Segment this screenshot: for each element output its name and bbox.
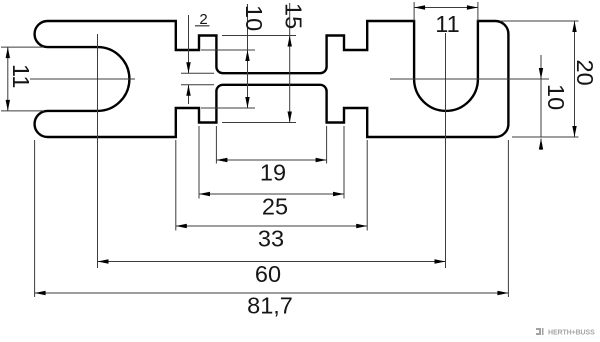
dimension line 10 middle	[247, 4, 249, 108]
ext line right edge (81,7)	[507, 140, 509, 297]
dimension line 2 web lower stem	[188, 85, 190, 104]
dimension line 10 right	[540, 55, 542, 137]
arrows 11 left	[6, 47, 10, 58]
svg-text:HERTH+BUSS: HERTH+BUSS	[548, 330, 595, 337]
dimension line 11 top	[414, 7, 478, 9]
ext line cutout left (19)	[215, 126, 217, 164]
arrows 19	[216, 158, 227, 162]
arrows 10 right	[539, 68, 543, 79]
herth+buss logo mark	[536, 328, 544, 335]
svg-text:33: 33	[258, 226, 284, 252]
dimension line 19	[216, 159, 326, 161]
ext line notch outer right (33)	[366, 140, 368, 231]
ext line notch outer left (33)	[175, 140, 177, 231]
svg-text:60: 60	[255, 261, 281, 287]
svg-text:10: 10	[543, 84, 569, 110]
ext line tab left (25)	[198, 126, 200, 199]
arrows 2 web	[186, 62, 190, 73]
dimension line 81,7	[35, 292, 509, 294]
svg-text:20: 20	[572, 60, 598, 86]
dimension line 60	[98, 261, 446, 263]
arrows 33	[176, 224, 187, 228]
dimension line 11 left	[7, 47, 9, 111]
ext line cutout right (19)	[326, 126, 328, 164]
svg-text:11: 11	[435, 11, 459, 37]
arrows 20 right	[572, 21, 576, 32]
svg-text:81,7: 81,7	[247, 293, 293, 319]
arrows 60	[98, 259, 109, 263]
dimension line 15 middle	[289, 3, 291, 123]
ext line slot-right right (11)	[477, 2, 479, 21]
centerline slot-right horizontal	[390, 78, 549, 80]
arrows 15 middle	[288, 36, 292, 47]
dimension line 25	[199, 193, 344, 195]
dimension line 2 web upper stem	[188, 15, 190, 73]
ext line slot-left bottom (11)	[1, 110, 44, 112]
arrows 10 middle	[245, 50, 249, 61]
ext line tab bottom (15)	[222, 122, 296, 124]
ext line left edge (81,7)	[34, 140, 36, 297]
centerline slot-right vertical	[445, 33, 447, 268]
ext line notch floor top (10)	[201, 49, 255, 51]
centerline slot-left vertical	[97, 34, 99, 268]
centerline slot-left horizontal	[30, 78, 135, 80]
ext line notch floor bottom (10)	[201, 107, 255, 109]
ext line top edge right (20)	[500, 20, 579, 22]
dimension line 20 right	[574, 21, 576, 137]
ext line slot-right left (11)	[413, 2, 415, 21]
svg-text:10: 10	[241, 5, 267, 31]
fuse strip outline	[35, 21, 509, 137]
svg-text:25: 25	[262, 194, 288, 220]
ext line web bottom (2)	[181, 84, 214, 86]
arrows 25	[199, 192, 210, 196]
ext line slot-left top (11)	[1, 46, 44, 48]
ext line web top (2)	[181, 72, 214, 74]
ext line bottom edge right (20,10)	[512, 136, 579, 138]
svg-text:15: 15	[281, 3, 307, 29]
svg-text:19: 19	[260, 160, 286, 186]
svg-text:11: 11	[8, 64, 34, 88]
arrows 11 top	[414, 5, 425, 9]
dimension line 33	[176, 225, 367, 227]
ext line notch inner right (25)	[343, 126, 345, 199]
ext line tab top (15)	[222, 35, 296, 37]
arrows 81,7	[35, 291, 46, 295]
